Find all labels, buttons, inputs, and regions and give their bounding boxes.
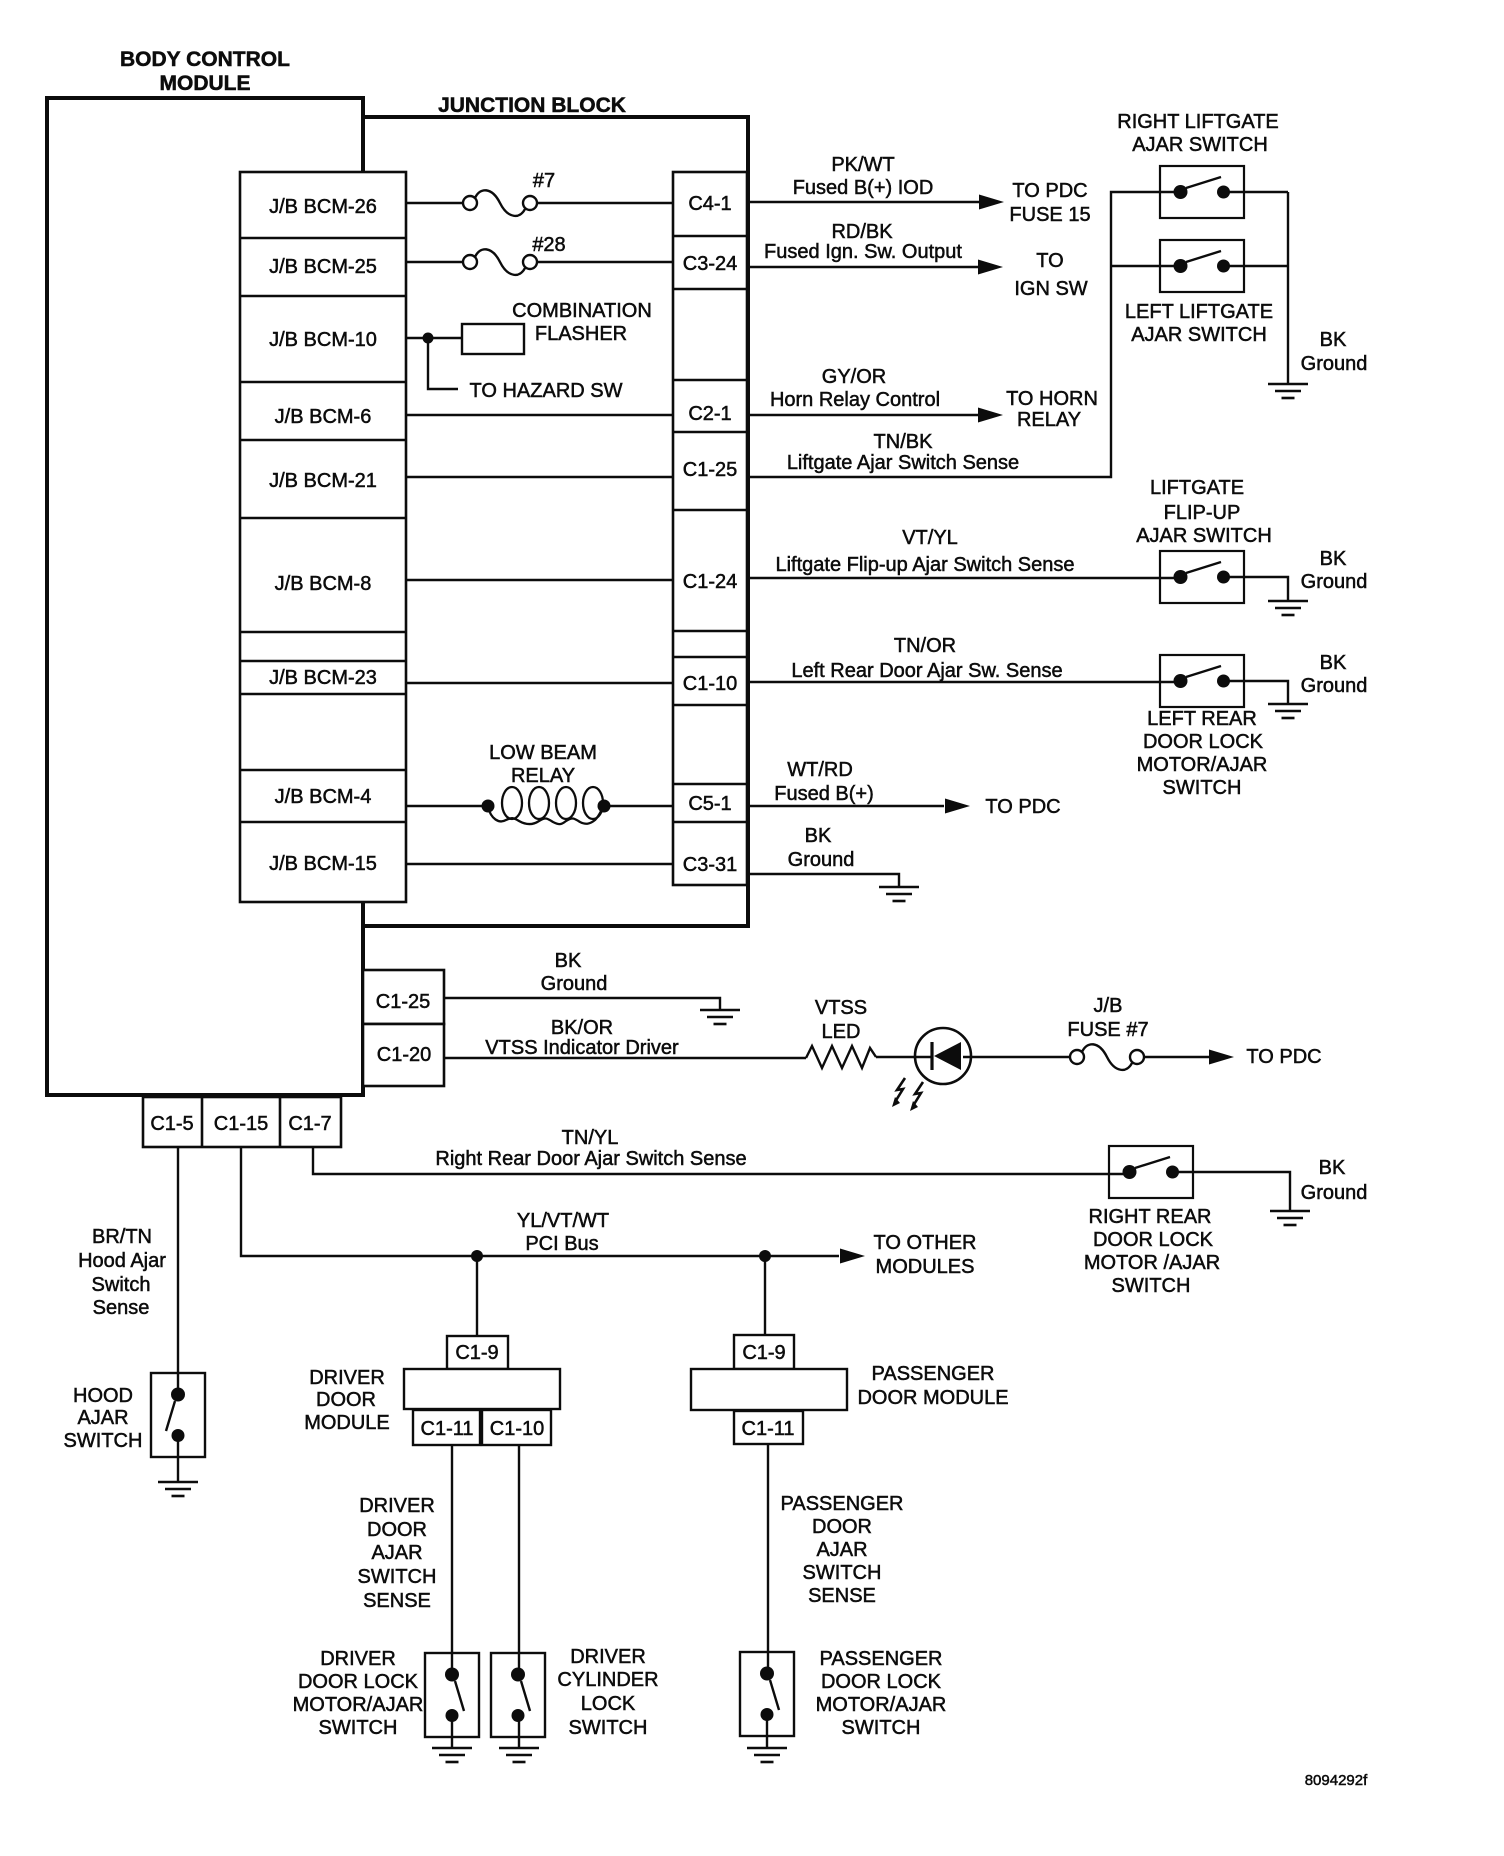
svg-text:JUNCTION BLOCK: JUNCTION BLOCK — [438, 94, 626, 117]
svg-text:DRIVER: DRIVER — [570, 1646, 646, 1668]
svg-text:DOOR LOCK: DOOR LOCK — [821, 1671, 942, 1693]
ground C1-25 BK — [700, 1010, 740, 1024]
svg-text:Ground: Ground — [541, 973, 608, 995]
body control module BCM outline — [47, 98, 363, 1095]
svg-text:VT/YL: VT/YL — [902, 527, 958, 549]
wire flipup switch to ground — [1223, 577, 1288, 601]
svg-text:AJAR: AJAR — [816, 1539, 867, 1561]
svg-text:DOOR LOCK: DOOR LOCK — [1143, 731, 1264, 753]
svg-text:RD/BK: RD/BK — [831, 221, 893, 243]
passenger door lock motor ajar switch — [740, 1652, 794, 1736]
ground flip-up switch — [1268, 601, 1308, 615]
svg-text:LEFT REAR: LEFT REAR — [1147, 708, 1257, 730]
svg-text:SWITCH: SWITCH — [1112, 1275, 1191, 1297]
svg-text:DOOR: DOOR — [367, 1519, 427, 1541]
svg-text:SWITCH: SWITCH — [1163, 777, 1242, 799]
svg-text:TN/YL: TN/YL — [562, 1127, 619, 1149]
svg-text:J/B BCM-15: J/B BCM-15 — [269, 853, 377, 875]
svg-text:DOOR MODULE: DOOR MODULE — [857, 1387, 1008, 1409]
svg-text:BK: BK — [1320, 329, 1347, 351]
right liftgate ajar switch — [1160, 166, 1244, 218]
svg-text:AJAR: AJAR — [371, 1542, 422, 1564]
svg-text:PASSENGER: PASSENGER — [781, 1493, 904, 1515]
BCM bottom connector boxes C1-5 C1-15 C1-7 — [143, 1097, 341, 1147]
arrow to PDC C5-1 — [945, 799, 970, 814]
svg-text:BK: BK — [805, 825, 832, 847]
svg-text:SWITCH: SWITCH — [569, 1717, 648, 1739]
left rear door lock motor ajar switch — [1160, 655, 1244, 707]
wire row1 BCM-26 to fuse7 — [406, 202, 463, 204]
svg-text:Ground: Ground — [788, 849, 855, 871]
wire passenger C1-11 to lock switch — [767, 1444, 769, 1675]
wire driver C1-11 to door lock switch — [451, 1445, 453, 1676]
svg-text:Ground: Ground — [1301, 353, 1368, 375]
wire driver cylinder switch to ground — [518, 1714, 520, 1748]
passenger door module box — [691, 1369, 847, 1410]
driver C1-9 box — [447, 1336, 508, 1369]
driver cylinder lock switch — [491, 1653, 545, 1737]
wire right liftgate switch to ground bus — [1223, 191, 1288, 193]
junction dot PCI driver branch — [471, 1250, 483, 1262]
svg-text:DRIVER: DRIVER — [359, 1495, 435, 1517]
svg-text:TO PDC: TO PDC — [1012, 180, 1087, 202]
left liftgate ajar switch — [1160, 240, 1244, 292]
svg-text:BK: BK — [555, 950, 582, 972]
svg-text:PK/WT: PK/WT — [831, 154, 894, 176]
wire C5-1 fused B+ to PDC arrow — [748, 805, 944, 807]
svg-text:PASSENGER: PASSENGER — [820, 1648, 943, 1670]
svg-text:MOTOR/AJAR: MOTOR/AJAR — [816, 1694, 947, 1716]
svg-text:AJAR: AJAR — [77, 1407, 128, 1429]
svg-text:FUSE #7: FUSE #7 — [1067, 1019, 1148, 1041]
junction block outline — [363, 117, 748, 926]
svg-text:AJAR SWITCH: AJAR SWITCH — [1131, 324, 1267, 346]
svg-text:Switch: Switch — [92, 1274, 151, 1296]
svg-text:C5-1: C5-1 — [688, 793, 731, 815]
svg-text:Sense: Sense — [93, 1297, 150, 1319]
wire C1-25 liftgate ajar sense — [748, 192, 1181, 477]
wire resistor to LED — [876, 1056, 932, 1058]
svg-text:RELAY: RELAY — [511, 765, 575, 787]
wire driver C1-10 to cylinder switch — [518, 1445, 520, 1676]
wire row2 BCM-25 to fuse28 — [406, 261, 463, 263]
svg-text:Liftgate Flip-up Ajar Switch S: Liftgate Flip-up Ajar Switch Sense — [775, 554, 1074, 576]
svg-text:SWITCH: SWITCH — [358, 1566, 437, 1588]
wire C4-1 to PDC arrow — [748, 201, 980, 203]
svg-text:J/B: J/B — [1094, 995, 1123, 1017]
svg-text:MODULES: MODULES — [876, 1256, 975, 1278]
wire row6 BCM-8 to C1-24 — [406, 579, 673, 581]
svg-text:C1-25: C1-25 — [376, 991, 430, 1013]
combination flasher box — [462, 324, 524, 354]
ground driver cylinder switch — [499, 1748, 539, 1762]
fuse #28 row2 — [463, 249, 537, 275]
wire C1-24 to flipup switch — [748, 577, 1181, 579]
svg-text:BK/OR: BK/OR — [551, 1017, 613, 1039]
svg-text:YL/VT/WT: YL/VT/WT — [517, 1210, 609, 1232]
right rear door lock motor ajar switch — [1109, 1146, 1193, 1198]
svg-text:#28: #28 — [532, 234, 565, 256]
svg-text:J/B BCM-8: J/B BCM-8 — [275, 573, 372, 595]
wire to hazard switch — [428, 338, 458, 389]
svg-text:TO PDC: TO PDC — [985, 796, 1060, 818]
wire C2-1 to horn arrow — [748, 414, 979, 416]
junction block connector column — [673, 172, 747, 885]
svg-text:Ground: Ground — [1301, 675, 1368, 697]
svg-text:GY/OR: GY/OR — [822, 366, 886, 388]
passenger C1-9 box — [734, 1335, 794, 1369]
wire LED to fuse — [963, 1056, 1070, 1058]
low beam relay coil — [488, 787, 604, 824]
svg-text:RIGHT REAR: RIGHT REAR — [1089, 1206, 1212, 1228]
svg-text:Fused B(+) IOD: Fused B(+) IOD — [793, 177, 934, 199]
svg-text:Left Rear Door Ajar Sw. Sense: Left Rear Door Ajar Sw. Sense — [791, 660, 1062, 682]
relay terminal dot left — [482, 800, 495, 813]
wire row4 BCM-6 to C2-1 — [406, 414, 673, 416]
svg-text:TO OTHER: TO OTHER — [874, 1232, 977, 1254]
svg-text:IGN SW: IGN SW — [1014, 278, 1087, 300]
svg-text:Liftgate Ajar Switch Sense: Liftgate Ajar Switch Sense — [787, 452, 1019, 474]
svg-text:C1-24: C1-24 — [683, 571, 737, 593]
svg-text:MODULE: MODULE — [304, 1412, 390, 1434]
driver C1-10 box — [482, 1410, 551, 1445]
wire C1-20 to resistor — [444, 1057, 806, 1059]
wire C1-25 BK ground — [444, 998, 720, 1010]
wire C1-5 hood ajar sense — [177, 1147, 179, 1396]
svg-text:LED: LED — [822, 1021, 861, 1043]
svg-text:MODULE: MODULE — [160, 72, 251, 95]
svg-text:8094292f: 8094292f — [1305, 1772, 1368, 1789]
svg-text:LOCK: LOCK — [581, 1693, 636, 1715]
svg-text:AJAR SWITCH: AJAR SWITCH — [1132, 134, 1268, 156]
svg-text:HOOD: HOOD — [73, 1385, 133, 1407]
ground hood switch — [158, 1482, 198, 1496]
svg-text:TN/OR: TN/OR — [894, 635, 956, 657]
svg-text:C3-24: C3-24 — [683, 253, 737, 275]
ground right rear switch — [1270, 1211, 1310, 1225]
svg-text:TO: TO — [1036, 250, 1063, 272]
svg-text:MOTOR/AJAR: MOTOR/AJAR — [1137, 754, 1268, 776]
svg-text:VTSS: VTSS — [815, 997, 867, 1019]
wire row7 BCM-23 to C1-10 — [406, 682, 673, 684]
svg-text:J/B BCM-10: J/B BCM-10 — [269, 329, 377, 351]
svg-text:SENSE: SENSE — [363, 1590, 431, 1612]
svg-text:Fused Ign. Sw. Output: Fused Ign. Sw. Output — [764, 241, 962, 263]
svg-text:J/B BCM-25: J/B BCM-25 — [269, 256, 377, 278]
resistor VTSS LED — [806, 1046, 876, 1068]
LED VTSS symbol — [892, 1028, 971, 1111]
svg-text:RIGHT LIFTGATE: RIGHT LIFTGATE — [1117, 111, 1279, 133]
svg-text:C1-5: C1-5 — [150, 1113, 193, 1135]
svg-text:DRIVER: DRIVER — [320, 1648, 396, 1670]
fuse #7 row1 — [463, 190, 537, 216]
junction dot hazard tap — [423, 333, 434, 344]
wire right rear switch to ground — [1172, 1172, 1290, 1211]
svg-text:SENSE: SENSE — [808, 1585, 876, 1607]
svg-text:#7: #7 — [533, 170, 555, 192]
svg-text:TO HORN: TO HORN — [1006, 388, 1098, 410]
svg-text:WT/RD: WT/RD — [787, 759, 853, 781]
svg-text:BK: BK — [1320, 652, 1347, 674]
svg-text:Hood Ajar: Hood Ajar — [78, 1250, 166, 1272]
svg-text:J/B BCM-26: J/B BCM-26 — [269, 196, 377, 218]
wire C1-10 to left rear switch — [748, 681, 1181, 683]
ground driver door lock switch — [432, 1748, 472, 1762]
svg-text:SWITCH: SWITCH — [319, 1717, 398, 1739]
svg-text:C1-11: C1-11 — [421, 1418, 474, 1440]
hood ajar switch — [151, 1373, 205, 1457]
svg-text:SWITCH: SWITCH — [842, 1717, 921, 1739]
svg-text:Ground: Ground — [1301, 1182, 1368, 1204]
wire PCI branch passenger C1-9 — [764, 1256, 766, 1335]
svg-text:SWITCH: SWITCH — [803, 1562, 882, 1584]
svg-text:FLIP-UP: FLIP-UP — [1164, 502, 1241, 524]
svg-text:CYLINDER: CYLINDER — [557, 1669, 658, 1691]
svg-text:C1-25: C1-25 — [683, 459, 737, 481]
arrow to PDC VTSS — [1209, 1050, 1234, 1065]
svg-text:J/B BCM-4: J/B BCM-4 — [275, 786, 372, 808]
wire hood switch to ground — [177, 1436, 179, 1482]
svg-text:MOTOR/AJAR: MOTOR/AJAR — [293, 1694, 424, 1716]
wire BCM-10 to flasher — [406, 337, 462, 339]
wire C1-15 PCI bus — [241, 1147, 839, 1256]
svg-text:C1-9: C1-9 — [742, 1342, 785, 1364]
arrow to IGN SW — [978, 260, 1003, 275]
svg-text:FLASHER: FLASHER — [535, 323, 627, 345]
arrow to other modules — [840, 1249, 865, 1264]
svg-text:C1-20: C1-20 — [377, 1044, 431, 1066]
svg-text:Right Rear Door Ajar Switch Se: Right Rear Door Ajar Switch Sense — [435, 1148, 746, 1170]
svg-text:RELAY: RELAY — [1017, 409, 1081, 431]
svg-text:BK: BK — [1320, 548, 1347, 570]
wire fuse28 to C3-24 — [537, 261, 673, 263]
ground C3-31 — [879, 887, 919, 901]
svg-text:BODY CONTROL: BODY CONTROL — [120, 48, 290, 71]
svg-text:DRIVER: DRIVER — [309, 1367, 385, 1389]
arrow to PDC fuse15 — [979, 195, 1004, 210]
svg-text:C1-10: C1-10 — [490, 1418, 544, 1440]
wire passenger lock switch to ground — [766, 1713, 768, 1748]
svg-text:C1-10: C1-10 — [683, 673, 737, 695]
svg-text:MOTOR /AJAR: MOTOR /AJAR — [1084, 1252, 1220, 1274]
svg-text:TN/BK: TN/BK — [874, 431, 934, 453]
driver door lock motor ajar switch — [425, 1653, 479, 1737]
wire left liftgate switch to ground bus — [1223, 265, 1288, 267]
svg-text:LOW BEAM: LOW BEAM — [489, 742, 597, 764]
wire liftgate ground bus — [1287, 192, 1289, 384]
wire C1-7 right rear door ajar sense — [313, 1147, 1130, 1174]
svg-text:C2-1: C2-1 — [688, 403, 731, 425]
svg-text:AJAR SWITCH: AJAR SWITCH — [1136, 525, 1272, 547]
svg-text:TO PDC: TO PDC — [1246, 1046, 1321, 1068]
wire relay to C5-1 — [604, 805, 673, 807]
svg-text:C1-11: C1-11 — [742, 1418, 795, 1440]
wire driver door lock switch to ground — [451, 1714, 453, 1748]
wire C3-31 BK ground — [748, 874, 899, 887]
svg-text:TO HAZARD SW: TO HAZARD SW — [470, 380, 623, 402]
svg-text:Horn Relay Control: Horn Relay Control — [770, 389, 940, 411]
ground left rear switch — [1268, 704, 1308, 718]
svg-text:COMBINATION: COMBINATION — [512, 300, 652, 322]
wire left liftgate branch — [1111, 265, 1181, 267]
wire fuse to PDC arrow — [1144, 1056, 1210, 1058]
svg-text:C3-31: C3-31 — [683, 854, 737, 876]
svg-text:LEFT LIFTGATE: LEFT LIFTGATE — [1125, 301, 1273, 323]
svg-text:C1-15: C1-15 — [214, 1113, 268, 1135]
driver C1-11 box — [413, 1410, 480, 1445]
svg-text:PCI Bus: PCI Bus — [525, 1233, 598, 1255]
wire C3-24 to IGN arrow — [748, 266, 979, 268]
svg-text:SWITCH: SWITCH — [64, 1430, 143, 1452]
ground liftgate switches — [1268, 384, 1308, 398]
svg-text:VTSS Indicator Driver: VTSS Indicator Driver — [485, 1037, 679, 1059]
svg-text:LIFTGATE: LIFTGATE — [1150, 477, 1244, 499]
wire row5 BCM-21 to C1-25 — [406, 476, 673, 478]
svg-text:J/B BCM-21: J/B BCM-21 — [269, 470, 377, 492]
svg-text:PASSENGER: PASSENGER — [872, 1363, 995, 1385]
liftgate flip-up ajar switch — [1160, 551, 1244, 603]
svg-text:BK: BK — [1319, 1157, 1346, 1179]
svg-text:C4-1: C4-1 — [688, 193, 731, 215]
wire left rear switch to ground — [1223, 681, 1288, 704]
wire row9 BCM-15 to C3-31 — [406, 863, 673, 865]
junction dot PCI passenger branch — [759, 1250, 771, 1262]
relay terminal dot right — [598, 800, 611, 813]
ground passenger lock switch — [747, 1748, 787, 1762]
passenger C1-11 box — [734, 1411, 803, 1444]
svg-text:Fused B(+): Fused B(+) — [774, 783, 873, 805]
fuse J/B #7 — [1070, 1044, 1144, 1070]
arrow to horn relay — [978, 408, 1003, 423]
wire BCM-4 to relay — [406, 805, 488, 807]
svg-text:J/B BCM-6: J/B BCM-6 — [275, 406, 372, 428]
driver door module box — [404, 1369, 560, 1409]
svg-text:DOOR LOCK: DOOR LOCK — [1093, 1229, 1214, 1251]
svg-text:BR/TN: BR/TN — [92, 1226, 152, 1248]
svg-text:J/B BCM-23: J/B BCM-23 — [269, 667, 377, 689]
wire fuse7 to C4-1 — [537, 202, 673, 204]
J/B BCM pin box stack — [240, 172, 406, 902]
svg-text:C1-9: C1-9 — [455, 1342, 498, 1364]
BCM connector boxes C1-25 C1-20 — [363, 970, 444, 1086]
svg-text:FUSE 15: FUSE 15 — [1009, 204, 1090, 226]
svg-text:DOOR: DOOR — [812, 1516, 872, 1538]
svg-text:C1-7: C1-7 — [288, 1113, 331, 1135]
svg-text:Ground: Ground — [1301, 571, 1368, 593]
wire PCI branch driver C1-9 — [476, 1256, 478, 1336]
svg-text:DOOR: DOOR — [316, 1389, 376, 1411]
svg-text:DOOR LOCK: DOOR LOCK — [298, 1671, 419, 1693]
